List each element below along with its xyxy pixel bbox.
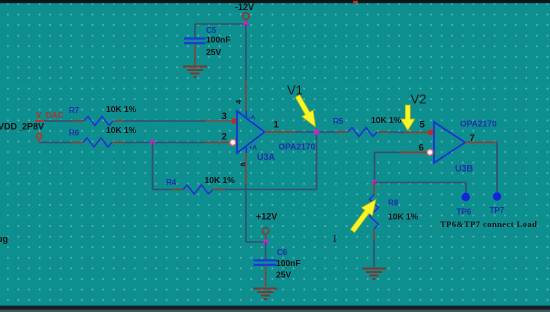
red square at pin 3 xyxy=(232,119,237,124)
svg-text:TP6: TP6 xyxy=(457,208,472,217)
svg-text:5: 5 xyxy=(420,120,426,131)
svg-text:10K 1%: 10K 1% xyxy=(371,115,402,125)
op-amp U3A xyxy=(237,111,315,162)
svg-text:100nF: 100nF xyxy=(276,258,301,268)
red tick on top bar xyxy=(353,1,358,3)
op-amp U3B xyxy=(434,119,497,174)
svg-text:TP6&TP7 connect Load: TP6&TP7 connect Load xyxy=(440,219,537,229)
svg-text:VDD_2P8V: VDD_2P8V xyxy=(0,122,44,132)
junction node -12V rail xyxy=(243,21,248,26)
svg-text:R5: R5 xyxy=(333,117,344,126)
pin 6 of U3B xyxy=(400,151,427,153)
power port VDD_2P8V xyxy=(36,134,41,143)
ground below C5 xyxy=(183,67,207,78)
svg-text:U3A: U3A xyxy=(257,152,276,162)
net +12V power symbol xyxy=(256,212,277,243)
svg-text:100nF: 100nF xyxy=(206,35,231,45)
capacitor C5 xyxy=(184,24,231,66)
pin 1 of U3A xyxy=(265,131,297,133)
svg-text:V1: V1 xyxy=(287,83,303,98)
wire R5 to pin5 xyxy=(390,131,404,133)
svg-text:V_DAC: V_DAC xyxy=(36,111,63,120)
net -12V power symbol xyxy=(235,2,254,24)
pin 2 of U3A xyxy=(205,141,230,143)
svg-text:TP7: TP7 xyxy=(490,206,505,215)
wire pin6 loop xyxy=(375,152,401,182)
svg-text:R6: R6 xyxy=(69,129,80,138)
svg-text:10K 1%: 10K 1% xyxy=(106,125,137,135)
svg-text:10K 1%: 10K 1% xyxy=(106,104,137,114)
svg-text:R4: R4 xyxy=(166,178,177,187)
svg-text:R7: R7 xyxy=(69,106,80,115)
svg-text:V2: V2 xyxy=(411,92,427,107)
test point TP7 xyxy=(490,192,505,215)
svg-text:+12V: +12V xyxy=(256,212,277,222)
svg-text:I: I xyxy=(333,233,337,245)
svg-text:10K 1%: 10K 1% xyxy=(205,175,236,185)
ground below C6 xyxy=(254,289,278,300)
svg-text:3: 3 xyxy=(222,111,227,122)
svg-text:-A: -A xyxy=(249,115,256,122)
wire node to TP6 xyxy=(375,183,467,194)
svg-text:OPA2170: OPA2170 xyxy=(460,119,497,129)
pin 5 of U3B xyxy=(404,131,430,133)
pin 7 of U3B xyxy=(465,141,497,143)
wire R4 to V1 node xyxy=(225,132,317,190)
junction node +12V xyxy=(263,239,268,244)
wire R6 to pin2 xyxy=(124,141,205,143)
arrow I xyxy=(350,200,376,233)
svg-text:OPA2170: OPA2170 xyxy=(279,142,316,152)
wire R7 to pin3 xyxy=(124,120,205,122)
resistor R7 xyxy=(69,104,137,125)
inverting input bubble pin 6 xyxy=(427,149,433,155)
wire to R6 xyxy=(39,141,72,143)
pin 3 of U3A xyxy=(205,120,234,122)
wire -12V rail down to U3A pin 4 xyxy=(245,24,247,111)
svg-text:+A: +A xyxy=(249,145,258,152)
ground below R8 xyxy=(362,269,386,280)
wire V_DAC stub (red) xyxy=(35,120,44,122)
test point TP6 xyxy=(457,193,472,217)
wire output to TP7 xyxy=(496,142,498,192)
capacitor C6 xyxy=(254,242,301,287)
junction node pin2/R4 xyxy=(150,140,155,145)
top title bar xyxy=(0,0,550,3)
junction node R8 xyxy=(372,180,377,185)
bottom bar xyxy=(0,306,550,310)
svg-text:10K 1%: 10K 1% xyxy=(388,212,419,222)
svg-text:-12V: -12V xyxy=(235,2,254,12)
svg-text:2: 2 xyxy=(222,132,227,143)
resistor R5 xyxy=(333,115,402,137)
resistor R6 xyxy=(69,125,137,147)
wire to R7 xyxy=(44,120,73,122)
svg-text:U3B: U3B xyxy=(455,164,474,174)
svg-text:25V: 25V xyxy=(206,47,221,57)
junction node V1 xyxy=(314,129,319,134)
arrow V1 xyxy=(295,95,315,127)
wire R8 to ground xyxy=(373,240,375,267)
arrow V2 xyxy=(401,105,415,131)
svg-text:25V: 25V xyxy=(276,270,291,280)
svg-text:C6: C6 xyxy=(277,248,288,257)
wire to R4 xyxy=(153,189,173,191)
inverting input bubble pin 2 xyxy=(230,139,236,145)
resistor R4 xyxy=(166,175,235,194)
svg-text:1: 1 xyxy=(274,120,280,131)
wire pin1 to R5 xyxy=(296,131,336,133)
wire -12V horizontal to C5 xyxy=(195,23,246,25)
resistor R8 xyxy=(370,183,419,241)
red square at pin 5 xyxy=(429,130,434,135)
svg-text:ug: ug xyxy=(0,234,8,244)
svg-text:R8: R8 xyxy=(388,199,399,208)
wire U3A pin8 rail to +12V xyxy=(246,153,266,242)
wire feedback down from pin2 node xyxy=(152,142,154,189)
